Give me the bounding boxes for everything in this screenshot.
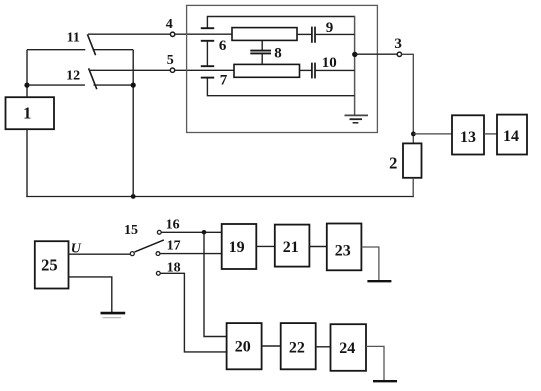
wire inner top rail — [207, 17, 354, 29]
wire inner bottom rail — [207, 78, 354, 96]
svg-text:3: 3 — [394, 36, 402, 52]
capacitor 6 upper plate (to top rail) — [201, 27, 214, 29]
capacitor 6 — [201, 38, 227, 66]
wire terminal 17 to block 19 — [160, 253, 222, 255]
block 1 — [6, 97, 55, 129]
block 14 — [497, 115, 527, 155]
block 25 (voltage source U) — [35, 241, 69, 288]
wire block1 top rail — [26, 50, 28, 97]
node junction dot bottom rail — [131, 194, 136, 199]
switch 12 — [27, 68, 133, 89]
wire block1 bottom vertical — [26, 129, 28, 197]
wire terminal 4 into box — [175, 33, 233, 35]
node junction dot on wire 16 — [202, 230, 207, 235]
wire 24 to ground — [366, 346, 384, 380]
wire middle rail — [132, 50, 134, 197]
svg-text:7: 7 — [220, 73, 228, 89]
ground (right of block 24) — [373, 380, 397, 382]
wire terminal 3 to node — [402, 54, 414, 143]
svg-text:11: 11 — [67, 30, 80, 45]
svg-text:13: 13 — [460, 129, 476, 146]
svg-text:9: 9 — [326, 20, 334, 36]
wire to terminal 3 — [355, 53, 398, 55]
node junction dot middle rail — [131, 83, 136, 88]
node terminal 3 — [394, 36, 402, 57]
ground (below block 25) — [101, 313, 126, 318]
block 24 — [331, 324, 367, 371]
svg-text:4: 4 — [166, 17, 173, 32]
node terminal 16 — [157, 218, 179, 235]
label U — [71, 242, 82, 257]
svg-text:21: 21 — [283, 239, 299, 256]
svg-text:25: 25 — [41, 256, 58, 275]
node junction dot left rail — [24, 83, 29, 88]
wire node to block 13 — [413, 133, 452, 135]
svg-text:23: 23 — [335, 243, 351, 260]
svg-text:16: 16 — [166, 218, 180, 233]
svg-text:2: 2 — [389, 153, 397, 172]
svg-text:19: 19 — [229, 239, 245, 256]
wire to terminal 4 — [88, 33, 171, 35]
block 13 — [452, 115, 484, 154]
svg-text:6: 6 — [219, 38, 227, 54]
node terminal 18 — [156, 260, 180, 275]
wire bottom common rail — [26, 196, 414, 198]
wire terminal 5 into box — [175, 69, 235, 71]
svg-text:12: 12 — [66, 68, 80, 83]
node terminal 4 — [166, 17, 175, 36]
wire 20 to 22 — [262, 345, 281, 347]
piezo element bottom (resonator plate) — [234, 64, 300, 77]
node junction dot above block 2 — [411, 132, 416, 137]
svg-text:10: 10 — [322, 55, 337, 71]
wire terminal 16 to block 19 — [161, 231, 222, 233]
wire 25 to switch 15 — [69, 253, 131, 255]
resistor 2 — [389, 143, 421, 177]
switch 15 — [124, 223, 164, 256]
node terminal 17 — [156, 239, 181, 256]
wire inner right rail — [354, 16, 356, 115]
wire block 2 to bottom rail — [412, 178, 414, 197]
wire junction to block 20 — [204, 232, 227, 336]
block 20 — [227, 323, 262, 369]
svg-text:24: 24 — [339, 340, 355, 357]
piezo element top (resonator plate) — [232, 28, 297, 41]
block 23 — [327, 224, 362, 271]
capacitor 7 — [201, 73, 228, 89]
svg-text:5: 5 — [167, 53, 174, 68]
capacitor 9 — [297, 20, 355, 43]
block 22 — [281, 323, 316, 369]
block 21 — [275, 225, 310, 267]
wire 25 lower to ground — [69, 277, 112, 312]
wire to terminal 5 — [89, 69, 170, 71]
wire 22 to 24 — [316, 346, 331, 348]
ground (inside box) — [345, 115, 369, 122]
dashed outline box (sensor enclosure) — [187, 5, 378, 132]
capacitor 10 — [300, 55, 355, 78]
svg-text:22: 22 — [289, 340, 305, 357]
node junction dot right rail — [352, 52, 357, 57]
capacitor 8 — [250, 40, 281, 64]
svg-text:17: 17 — [167, 239, 181, 254]
svg-text:1: 1 — [23, 103, 31, 122]
svg-text:20: 20 — [235, 338, 251, 355]
wire 13 to 14 — [484, 133, 497, 135]
switch 11 — [27, 30, 133, 55]
svg-text:14: 14 — [503, 128, 519, 145]
node terminal 5 — [167, 53, 175, 73]
wire terminal 18 to block 20 — [160, 273, 226, 352]
svg-text:15: 15 — [124, 223, 138, 238]
svg-text:8: 8 — [274, 46, 282, 62]
block 19 — [222, 224, 257, 269]
wire 23 to ground — [361, 247, 379, 280]
wire 19 to 21 — [256, 245, 275, 247]
ground (right of block 23) — [367, 280, 391, 282]
wire 21 to 23 — [309, 246, 326, 248]
